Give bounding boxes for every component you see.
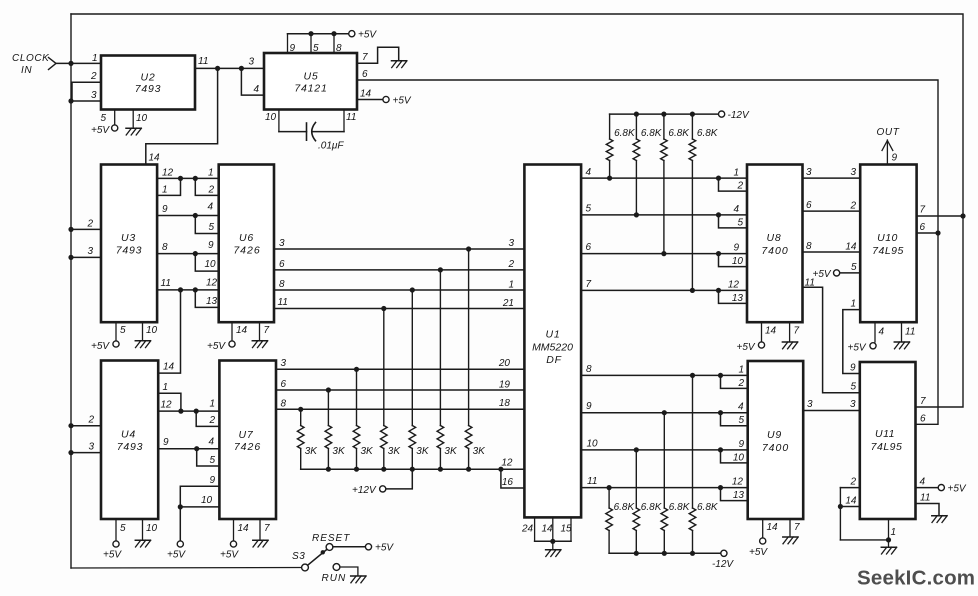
node junction U8.13 tap [716,288,721,293]
node junction 3K bus [326,467,331,472]
wire R2 bottom lead [327,449,329,470]
wire bottom rail to S3 [71,567,302,570]
wire R10 bottom lead [663,161,665,254]
wire R7 bottom lead [468,449,470,470]
node junction U4.2 rail [68,423,73,428]
node junction bottom -12V bus [662,551,667,556]
wire U11 ground stub [888,540,890,547]
svg-text:14: 14 [765,326,777,337]
svg-text:+5V: +5V [220,550,239,561]
op U3 7493 box [101,165,157,323]
node junction tap R6 [438,267,443,272]
pin U5.9 stub [287,34,289,53]
svg-text:24: 24 [521,524,534,535]
svg-text:9: 9 [208,240,214,251]
svg-text:3: 3 [850,167,856,178]
svg-text:10: 10 [146,523,158,534]
svg-text:5: 5 [737,217,743,228]
power +5V terminal U8.14 [758,342,764,348]
svg-text:7493: 7493 [135,83,162,95]
svg-text:4: 4 [920,477,926,488]
node junction U3.3 rail [68,255,73,260]
svg-text:9: 9 [163,437,169,448]
pin U9.14 stub [762,519,764,538]
svg-text:4: 4 [208,202,214,213]
svg-text:5: 5 [850,382,856,393]
power +5V terminal U2.5 [112,125,118,131]
wire R1 top lead [300,409,302,425]
svg-text:6.8K: 6.8K [614,502,636,513]
svg-text:6.8K: 6.8K [697,128,719,139]
pin U2.1 [71,62,101,64]
node junction B [239,66,244,71]
svg-text:8: 8 [281,398,287,409]
svg-text:6: 6 [281,379,287,390]
power +5V terminal U3.5 [113,341,119,347]
pin U6.7 stub [259,322,261,340]
svg-text:7: 7 [794,522,800,533]
svg-text:3: 3 [91,90,97,101]
node junction R10 tap [661,251,666,256]
resistor R7 3K [465,426,472,449]
svg-text:2: 2 [736,181,743,192]
node junction U3.2 rail [68,227,73,232]
svg-text:+12V: +12V [352,485,377,496]
svg-text:+5V: +5V [749,547,768,558]
op U11 74L95 box [860,362,916,519]
svg-text:74121: 74121 [294,83,327,95]
svg-text:1: 1 [210,399,216,410]
node junction G [178,287,183,292]
resistor R12 6.8K [606,508,613,531]
svg-text:6.8K: 6.8K [614,128,636,139]
pin U3.2 wire [71,228,101,230]
wire U1 bottom pins common [535,540,571,542]
svg-text:1: 1 [163,382,169,393]
svg-text:8: 8 [162,242,168,253]
pin U10.4 stub [874,322,876,342]
svg-text:1: 1 [891,527,897,538]
pin U4.12 wire to U7.1 [158,410,219,412]
power -12V terminal bottom [721,550,727,556]
pin U7.7 stub [259,519,261,540]
svg-text:3: 3 [88,442,94,453]
svg-text:7: 7 [920,205,926,216]
node clock junction [68,61,73,66]
node junction tap R5 [410,287,415,292]
svg-text:7: 7 [794,326,800,337]
svg-text:14: 14 [163,362,175,373]
pin U1.16 wrap [501,469,525,488]
node junction U8.2 tap [716,176,721,181]
svg-text:3K: 3K [388,446,402,457]
svg-text:CLOCK: CLOCK [12,53,50,64]
svg-text:U2: U2 [140,72,155,84]
pin U1.10 wire to U9.9 [581,449,748,451]
wire R10 top lead [663,114,665,139]
op U9 7400 box [748,361,804,519]
pin U6.11 wire to U1.21 [274,308,524,310]
power +5V terminal U11.4 [938,485,944,491]
node junction U9.13 tap [718,485,723,490]
switch S3 RUN contact [333,564,340,571]
node junction tap R1 [298,407,303,412]
wire R2 top lead [327,390,329,426]
wire R13 top lead [635,450,637,508]
svg-text:6.8K: 6.8K [641,502,663,513]
svg-text:3: 3 [807,399,813,410]
wire clock input to rail [56,62,71,64]
pin U7.8 wire to U1.18 [276,408,524,410]
svg-text:18: 18 [499,398,511,409]
svg-text:7: 7 [362,52,368,63]
node junction top -12V bus [690,112,695,117]
svg-text:13: 13 [206,296,218,307]
svg-text:12: 12 [728,280,740,291]
node junction H [193,287,198,292]
node junction L [178,504,183,509]
wire R8 top lead [609,114,611,139]
pin U10.9 stub OUT arrow [886,140,888,165]
pin U10.5 wire [840,272,860,274]
resistor R1 3K [297,426,304,449]
svg-text:+5V: +5V [375,543,394,554]
ground U9.7 [783,537,798,544]
svg-text:6: 6 [920,413,926,424]
svg-text:2: 2 [507,259,514,270]
ground U7.7 [253,540,268,547]
svg-text:U6: U6 [239,232,254,244]
svg-text:RESET: RESET [312,533,350,544]
svg-text:10: 10 [733,452,745,463]
pin U9.7 stub [789,519,791,537]
svg-text:5: 5 [100,113,106,124]
power +5V terminal U7.9-10 [177,541,183,547]
svg-text:8: 8 [586,364,592,375]
capacitor C1 .01uF [306,123,308,140]
wire +12V feed [386,469,412,489]
node junction R9 tap [634,212,639,217]
op U2 7493 box [101,56,195,110]
svg-text:2: 2 [209,415,216,426]
wire R15 bottom lead [692,531,694,554]
node junction 3K bus [438,467,443,472]
pin U5.11 stub [343,110,345,132]
node junction U11.14 [838,504,843,509]
svg-text:10: 10 [732,256,744,267]
power +5V terminal U6.14 [229,341,235,347]
wire -12V top bus [610,113,718,115]
svg-text:OUT: OUT [877,127,900,138]
pin U7.14 stub [233,519,235,541]
wire R1 bottom lead [300,449,302,470]
wire RESET to +5V [333,546,365,548]
wire R5 top lead [411,290,413,426]
svg-text:-12V: -12V [712,559,734,570]
svg-text:11: 11 [346,112,356,123]
svg-text:U5: U5 [303,71,318,83]
ground U1 [546,550,561,557]
pin U5.14 wire [357,99,383,101]
svg-text:3: 3 [87,246,93,257]
wire left clock rail [70,14,72,568]
pin U3.8 wire to U6.9 [157,253,219,255]
pin U8.2 wrap [719,178,748,191]
node junction bottom -12V bus [634,551,639,556]
pin U3.1 wrap [157,178,180,195]
node junction U2.3 on rail [68,98,73,103]
node junction U5.5 bus [308,31,313,36]
svg-text:7426: 7426 [234,441,261,453]
svg-text:16: 16 [502,477,514,488]
svg-text:+5V: +5V [167,550,186,561]
switch S3 lever [308,550,327,565]
pin U8.3 wire to U10.3 [803,177,861,179]
pin U6.14 stub [231,322,233,340]
switch S3 pole [302,564,309,571]
pin U6.13 wrap [195,290,218,308]
svg-text:3: 3 [281,358,287,369]
pin U2.10 stub [132,110,134,129]
svg-text:4: 4 [209,437,215,448]
resistor R14 6.8K [661,508,668,531]
svg-text:5: 5 [738,415,744,426]
svg-text:U9: U9 [767,429,782,441]
ground U3.10 [135,341,150,348]
svg-text:+5V: +5V [393,95,412,106]
svg-text:3: 3 [248,57,254,68]
svg-text:14: 14 [149,153,161,164]
svg-text:1: 1 [733,168,739,179]
wire U11 bottom run to pin1 [840,539,888,541]
pin U3.12 wire to U6.1 [157,177,219,179]
pin U4.10 stub [142,519,144,540]
pin U6.10 wrap [195,254,218,272]
pin U8.14 stub [761,322,763,341]
svg-text:15: 15 [561,524,573,535]
pin U6.3 wire to U1.3 [274,248,524,250]
svg-text:9: 9 [586,401,592,412]
svg-text:14: 14 [767,522,779,533]
svg-text:3: 3 [850,399,856,410]
svg-text:2: 2 [849,201,856,212]
pin U4.3 wire [71,452,101,454]
pin U6.5 wrap [195,216,218,234]
pin U2.5 stub [114,110,116,125]
svg-text:10: 10 [201,495,213,506]
pin U11.1 stub [888,519,890,540]
svg-text:3K: 3K [332,446,346,457]
svg-text:5: 5 [120,325,126,336]
svg-text:3K: 3K [305,446,319,457]
pin U7.5 wrap [197,449,220,466]
pin U6.6 wire to U1.2 [274,269,524,271]
svg-text:U1: U1 [545,329,560,341]
op U8 7400 box [747,165,803,323]
svg-text:1: 1 [208,168,214,179]
wire R13 bottom lead [635,531,637,554]
node junction S3 lever [321,550,325,554]
ground U4.10 [135,540,150,547]
svg-text:5: 5 [120,523,126,534]
resistor R6 3K [437,426,444,449]
svg-text:IN: IN [21,65,32,76]
svg-text:14: 14 [845,242,857,253]
svg-text:7493: 7493 [116,245,143,257]
svg-text:9: 9 [738,439,744,450]
node junction D [193,176,198,181]
pin U3.3 wire [71,256,101,258]
svg-text:14: 14 [236,325,248,336]
svg-text:1: 1 [738,365,744,376]
wire U5 cap left lead [279,131,307,133]
power +5V terminal U5.14 [383,96,389,102]
node junction U8.10 tap [716,251,721,256]
resistor R9 6.8K [633,139,640,161]
node junction 3K bus [410,467,415,472]
node junction U4.3 rail [68,450,73,455]
switch S3 RESET contact [326,544,333,551]
wire U1 ground stub [552,541,554,549]
node junction J [194,409,199,414]
pin U2.11 output wire to U5.3 [195,67,264,69]
svg-text:U11: U11 [875,428,895,440]
svg-text:2: 2 [737,378,744,389]
pin U9.5 wrap [721,413,748,426]
svg-text:3K: 3K [361,446,375,457]
wire R15 top lead [692,375,694,508]
wire RUN to ground [340,567,358,576]
node junction U9.2 tap [718,373,723,378]
svg-text:10: 10 [587,439,599,450]
svg-text:14: 14 [845,496,857,507]
pin U7.2 wrap [196,411,219,426]
power +5V terminal S3 [365,544,371,550]
svg-text:6: 6 [362,69,368,80]
node junction U10 pin6 on long line [935,230,940,235]
svg-text:13: 13 [733,490,745,501]
svg-text:9: 9 [850,363,856,374]
svg-text:7: 7 [586,279,592,290]
pin U9.10 wrap [721,450,748,463]
pin U9.2 wrap [721,375,748,388]
pin U11.4 wire [916,487,938,489]
resistor R8 6.8K [606,139,613,161]
pin U10.11 stub [901,322,903,342]
resistor R3 3K [353,426,360,449]
svg-text:1: 1 [850,299,856,310]
svg-text:DF: DF [546,354,562,366]
node junction R8 tap [607,176,612,181]
svg-text:12: 12 [161,400,173,411]
node junction U8.5 tap [716,212,721,217]
wire R4 bottom lead [383,449,385,470]
svg-text:-12V: -12V [728,110,750,121]
power +5V terminal U7.14 [230,541,236,547]
pin U8.13 wrap [719,290,748,303]
svg-text:12: 12 [501,458,513,469]
pin U1.15 stub [570,517,572,541]
svg-text:+5V: +5V [737,342,756,353]
wire R9 top lead [635,114,637,139]
svg-text:3K: 3K [444,446,458,457]
resistor R2 3K [325,426,332,449]
pin U1.9 wire to U9.4 [581,412,748,414]
ground U10.11 [894,342,909,349]
svg-text:U8: U8 [766,232,781,244]
node junction K [194,446,199,451]
wire junction A to U3.14 [146,68,218,164]
svg-text:7400: 7400 [762,442,789,454]
svg-text:3: 3 [806,167,812,178]
pin U1.11 wire to U9.12 [581,487,748,489]
svg-text:9: 9 [162,204,168,215]
pin U7.9 wire [180,486,219,540]
pin U11.14 wire [840,506,859,508]
svg-text:7: 7 [264,325,270,336]
svg-text:10: 10 [205,259,217,270]
ground U8.7 [782,342,797,349]
svg-text:+5V: +5V [948,484,967,495]
svg-text:14: 14 [360,89,372,100]
svg-text:+5V: +5V [848,343,867,354]
pin U8.8 wire to U10.14 [803,251,861,253]
node junction top -12V bus [661,112,666,117]
node junction F [193,251,198,256]
pin U7.6 wire to U1.19 [276,389,524,391]
svg-text:5: 5 [851,262,857,273]
node junction U9.5 tap [718,410,723,415]
node junction top -12V bus [634,112,639,117]
svg-text:6: 6 [586,242,592,253]
wire R11 top lead [691,114,693,139]
node junction R14 tap [662,410,667,415]
svg-text:2: 2 [87,415,94,426]
svg-text:11: 11 [920,493,930,504]
node junction U9.10 tap [718,447,723,452]
node junction U11.1 [886,537,891,542]
pin U8.7 stub [789,322,791,342]
svg-text:4: 4 [253,84,259,95]
node junction U10 pin7 on feedback rail [960,213,965,218]
wire 3K bottom bus to U1.12 [301,468,525,470]
op U6 7426 box [219,165,274,323]
pin U8.6 wire to U10.2 [803,210,861,212]
svg-text:4: 4 [586,167,592,178]
svg-text:14: 14 [542,524,554,535]
power +5V terminal U9.14 [760,538,766,544]
wire R14 bottom lead [663,531,665,554]
svg-text:7493: 7493 [117,441,144,453]
svg-text:10: 10 [265,112,277,123]
node junction R11 tap [690,288,695,293]
node junction tap R7 [466,246,471,251]
pin U3.10 stub [142,322,144,340]
node junction tap R4 [381,306,386,311]
svg-text:6.8K: 6.8K [668,128,690,139]
op U7 7426 box [219,361,276,520]
svg-text:74L95: 74L95 [872,245,904,257]
pin U4.5 stub [115,519,117,541]
op U1 MM5220DF box [524,165,581,518]
svg-text:14: 14 [238,523,250,534]
pin U5.4 wrap [241,68,264,95]
pin U10.7 wire [917,215,963,217]
resistor R11 6.8K [689,139,696,161]
svg-text:U3: U3 [121,232,136,244]
ground U11.1 [881,547,896,554]
node junction R13 tap [634,447,639,452]
